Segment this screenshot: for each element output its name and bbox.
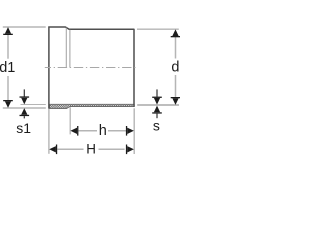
- dimension s1 upper arrow: [23, 89, 25, 96]
- dimension H line: [57, 148, 83, 150]
- d arrow up: [172, 29, 178, 36]
- d1 arrow down: [5, 101, 11, 108]
- extension line right of body (h/H right): [133, 108, 135, 154]
- svg-text:s1: s1: [16, 120, 31, 136]
- h arrow left: [70, 128, 77, 134]
- d arrow down: [172, 98, 178, 105]
- extension line bottom left outer (d1/s1 outer surface): [3, 107, 46, 109]
- dimension s1 lower arrow: [21, 108, 27, 115]
- dimension d line: [175, 37, 177, 59]
- centerline: [45, 67, 138, 69]
- h arrow right: [127, 128, 134, 134]
- dimension s lower arrow: [154, 106, 160, 113]
- socket body outline: [48, 27, 134, 109]
- svg-text:H: H: [86, 142, 96, 157]
- dimension d1 line: [7, 35, 9, 59]
- H arrow right: [127, 146, 134, 152]
- extension line below socket end (h left): [69, 107, 71, 134]
- svg-text:h: h: [99, 123, 107, 139]
- extension line top right (d upper): [137, 28, 179, 30]
- svg-text:d: d: [171, 60, 179, 76]
- socket mouth inner edge line 1: [65, 28, 67, 68]
- extension line top left (d1 upper): [3, 26, 46, 28]
- socket mouth inner edge line 2: [69, 30, 71, 68]
- extension line bottom left inner (s1 inner surface): [21, 104, 46, 106]
- dimension h line: [78, 130, 97, 132]
- svg-text:s: s: [153, 117, 160, 133]
- wall section band (hatched): [50, 104, 135, 108]
- d1 arrow up: [5, 27, 11, 34]
- dimension s upper arrow: [156, 89, 158, 96]
- H arrow left: [49, 146, 56, 152]
- svg-text:d1: d1: [0, 60, 15, 76]
- extension line below left edge (H left): [48, 109, 50, 154]
- extension line bottom right (d/s outer): [137, 104, 179, 106]
